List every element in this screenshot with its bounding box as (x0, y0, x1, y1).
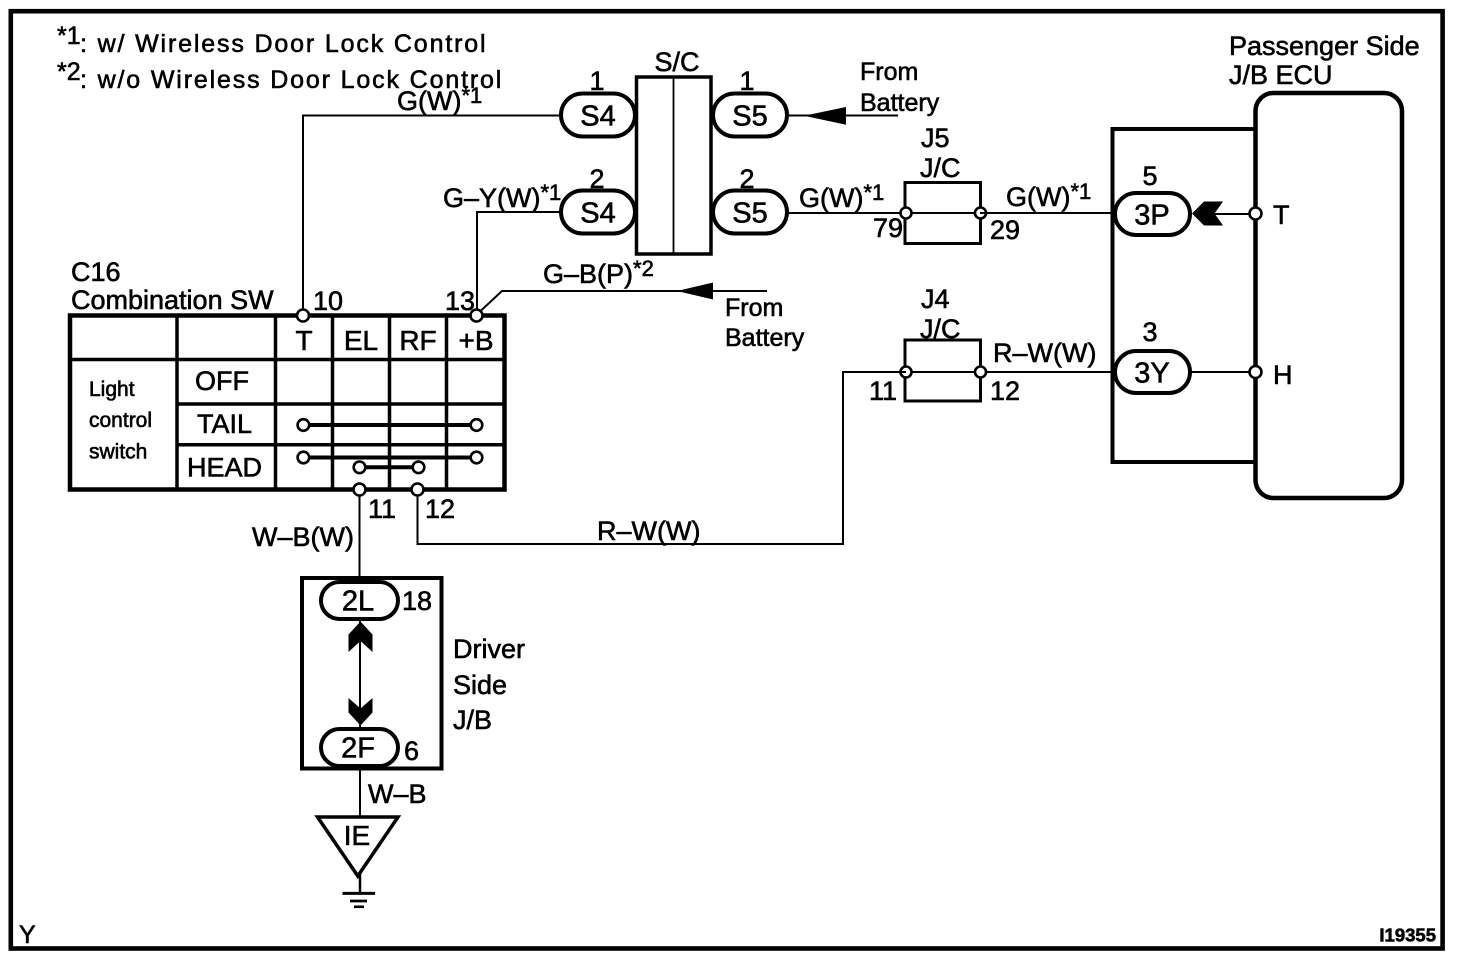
wire G(W)*1 combination switch pin 10 to S4 (303, 83, 561, 310)
label Y (19, 921, 36, 949)
wire G(W)*1 S5 pin2 to J5 (787, 180, 906, 213)
svg-text:11: 11 (368, 494, 396, 524)
svg-text:HEAD: HEAD (187, 453, 262, 483)
combination switch C16 (70, 257, 505, 490)
svg-text:3: 3 (1142, 317, 1157, 347)
svg-text:Combination SW: Combination SW (71, 285, 274, 315)
svg-text:J5: J5 (921, 123, 950, 153)
pin 10 (297, 286, 343, 322)
svg-text:T: T (295, 325, 312, 356)
label From Battery (middle) (725, 294, 805, 352)
svg-text:S4: S4 (580, 198, 615, 230)
ground IE (318, 817, 399, 907)
svg-text:1: 1 (589, 66, 604, 96)
connector 3P pin 5 (1115, 161, 1190, 235)
svg-text:J/B ECU: J/B ECU (1229, 60, 1333, 90)
switch contact TAIL row (298, 419, 483, 431)
svg-text:2L: 2L (342, 586, 374, 618)
svg-text:J/C: J/C (920, 314, 961, 344)
svg-text:Light: Light (89, 378, 135, 401)
svg-text:S5: S5 (732, 198, 767, 230)
svg-text:Y: Y (19, 921, 36, 949)
svg-text:C16: C16 (71, 257, 121, 287)
svg-text:J/B: J/B (453, 705, 492, 735)
wire from battery to S5 pin 1 (787, 107, 898, 125)
svg-text:R–W(W): R–W(W) (993, 338, 1096, 368)
switch contact HEAD row outer (298, 452, 483, 464)
arrow up (349, 622, 373, 653)
svg-text:J4: J4 (921, 284, 950, 314)
svg-text:From: From (725, 294, 783, 322)
svg-text:Battery: Battery (725, 324, 805, 352)
pin 11 (354, 484, 397, 525)
svg-text:J/C: J/C (920, 153, 961, 183)
wire R-W(W) J4 to 3Y (980, 338, 1115, 372)
svg-text:79: 79 (873, 213, 903, 243)
terminal T (1250, 200, 1290, 230)
svg-text:*2: *2 (57, 58, 81, 86)
connector S4 pin 2 (561, 164, 635, 234)
wire G(W)*1 J5 to 3P (980, 179, 1115, 213)
short connector S/C (637, 47, 712, 254)
svg-text:OFF: OFF (195, 366, 249, 396)
svg-text:Side: Side (453, 670, 507, 700)
label From Battery (top) (860, 58, 940, 117)
svg-text:11: 11 (869, 376, 897, 406)
note *1 w/ Wireless Door Lock Control (57, 22, 487, 58)
svg-text:13: 13 (445, 286, 475, 316)
connector S5 pin 2 (713, 164, 787, 234)
arrow down (349, 698, 373, 726)
svg-text:W–B: W–B (368, 779, 427, 809)
pin 12 (412, 484, 456, 525)
switch contact HEAD row inner (354, 462, 425, 474)
svg-text:R–W(W): R–W(W) (597, 516, 700, 546)
svg-text:2: 2 (589, 164, 604, 194)
connector 2F pin 6 (321, 729, 419, 766)
svg-text:3Y: 3Y (1134, 358, 1169, 390)
svg-text:S5: S5 (732, 101, 767, 133)
wire G-B(P)*2 from battery to combination switch pin 13 (481, 256, 768, 311)
svg-text:+B: +B (458, 325, 493, 356)
svg-text:12: 12 (990, 376, 1020, 406)
connector 3Y pin 3 (1115, 317, 1250, 393)
note *2 w/o Wireless Door Lock Control (57, 58, 503, 94)
svg-text:S4: S4 (580, 101, 615, 133)
svg-text:TAIL: TAIL (197, 409, 252, 439)
connector S5 pin 1 (713, 66, 787, 137)
svg-text:18: 18 (402, 586, 432, 616)
svg-text:Driver: Driver (453, 634, 525, 664)
wire G-Y(W)*1 S4 pin2 to combination switch pin 13 (443, 180, 561, 309)
connector S4 pin 1 (561, 66, 635, 137)
svg-text:5: 5 (1142, 161, 1157, 191)
svg-text:Battery: Battery (860, 89, 940, 117)
junction connector J5 J/C (873, 123, 1020, 245)
svg-text:IE: IE (344, 820, 370, 851)
passenger side J/B ECU (1113, 31, 1420, 498)
svg-text:I19355: I19355 (1379, 925, 1436, 946)
svg-text:RF: RF (399, 325, 436, 356)
arrow into 3P (1192, 202, 1250, 226)
driver side J/B (302, 578, 525, 769)
svg-text:control: control (89, 409, 152, 432)
svg-text:EL: EL (344, 325, 378, 356)
junction connector J4 J/C (869, 284, 1020, 406)
svg-text:2F: 2F (341, 733, 375, 765)
label I19355 (1379, 925, 1436, 946)
svg-text:H: H (1273, 360, 1293, 390)
terminal H (1250, 360, 1293, 390)
svg-text:29: 29 (990, 215, 1020, 245)
svg-text:: w/ Wireless Door Lock Contro: : w/ Wireless Door Lock Control (80, 30, 487, 58)
svg-text:switch: switch (89, 441, 147, 464)
wire 2L to 2F (359, 619, 361, 729)
svg-text:T: T (1273, 200, 1290, 230)
svg-text:10: 10 (313, 286, 343, 316)
pin 13 (445, 286, 483, 322)
svg-text:From: From (860, 58, 918, 86)
svg-text:S/C: S/C (654, 47, 699, 77)
svg-text:W–B(W): W–B(W) (252, 522, 354, 552)
svg-text:6: 6 (404, 736, 419, 766)
svg-text:*1: *1 (57, 22, 81, 50)
svg-text:1: 1 (739, 66, 754, 96)
wire W-B(W) pin 11 to driver side J/B (252, 495, 360, 582)
svg-text:3P: 3P (1134, 200, 1169, 232)
svg-text:12: 12 (425, 494, 455, 524)
wire W-B 2F to ground (360, 766, 427, 817)
svg-text:Passenger Side: Passenger Side (1229, 31, 1420, 61)
svg-text:2: 2 (739, 164, 754, 194)
wire R-W(W) combination switch pin 12 to J4 (418, 372, 907, 546)
connector 2L pin 18 (321, 582, 432, 619)
